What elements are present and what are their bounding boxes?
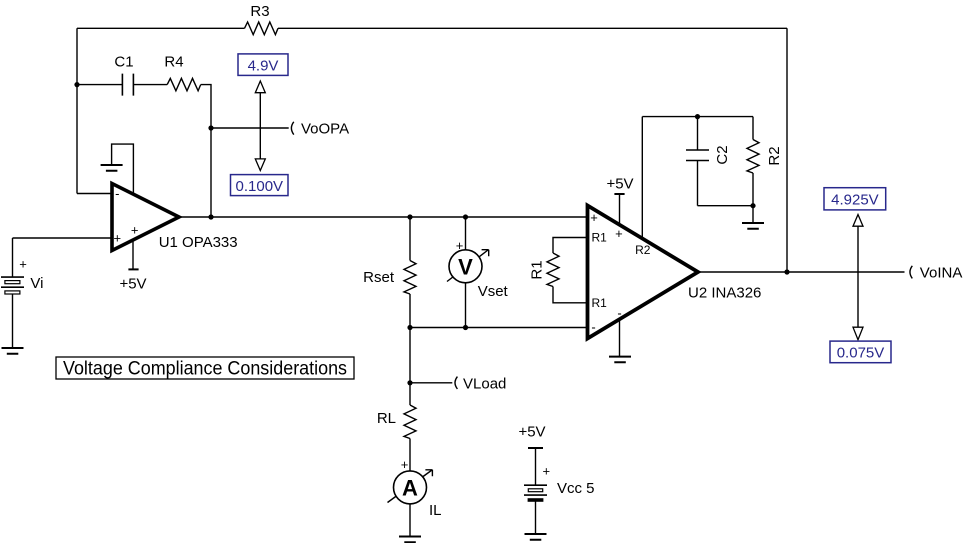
wire C1 branch: [77, 84, 122, 86]
svg-text:U2 INA326: U2 INA326: [688, 285, 761, 302]
wire Vi negative lead: [12, 294, 14, 348]
wire U1 noninverting input: [13, 237, 113, 239]
node dot Vset top: [463, 214, 468, 219]
svg-text:0.075V: 0.075V: [837, 345, 885, 362]
svg-text:-: -: [591, 320, 595, 335]
svg-text:C1: C1: [114, 54, 133, 71]
wire feedback right vertical: [786, 28, 788, 272]
svg-text:+5V: +5V: [119, 276, 146, 293]
svg-text:VoOPA: VoOPA: [301, 121, 349, 138]
svg-text:V: V: [458, 255, 473, 280]
svg-text:+: +: [131, 223, 139, 238]
node dot U1 output: [208, 214, 213, 219]
wire Vcc bottom: [535, 501, 537, 534]
wire Rset top lead: [409, 217, 411, 261]
wire U1 inverting input: [77, 193, 112, 195]
svg-text:C2: C2: [714, 145, 731, 164]
voltage box 4.925V: [824, 188, 886, 210]
node dot Rset bottom: [407, 325, 412, 330]
wire IL to ground: [409, 504, 411, 537]
svg-text:+: +: [401, 457, 409, 472]
svg-text:U1 OPA333: U1 OPA333: [159, 234, 238, 251]
wire R2 C2 top: [642, 116, 753, 118]
wire RL to ammeter: [409, 439, 411, 472]
wire R3 right lead: [278, 27, 787, 29]
node dot C1 branch: [74, 82, 79, 87]
instrumentation amp U2: [588, 206, 699, 339]
svg-text:IL: IL: [429, 502, 442, 519]
svg-text:VLoad: VLoad: [463, 375, 506, 392]
svg-text:R2: R2: [635, 243, 651, 257]
node dot Vset bottom: [463, 325, 468, 330]
wire U2 R1 bracket top: [553, 238, 588, 254]
connector VoINA arc: [910, 266, 912, 279]
svg-text:R2: R2: [766, 146, 783, 165]
measure arrow down VoINA: [853, 327, 863, 340]
svg-text:A: A: [402, 476, 418, 501]
svg-text:R1: R1: [529, 260, 546, 279]
node dot R2 bottom: [750, 203, 755, 208]
measure shaft VoOPA: [259, 93, 261, 159]
connector VoOPA arc: [291, 122, 293, 135]
wire U1 supply: [132, 240, 134, 269]
svg-text:+: +: [590, 210, 598, 225]
svg-text:Rset: Rset: [363, 269, 395, 286]
wire Vcc top: [535, 448, 537, 485]
svg-text:VoINA: VoINA: [920, 265, 963, 282]
capacitor C1: [122, 74, 133, 96]
svg-text:Vi: Vi: [30, 275, 43, 292]
node dot C2 top: [695, 114, 700, 119]
svg-text:+: +: [19, 256, 27, 271]
ground Vcc: [525, 534, 547, 540]
svg-text:Voltage Compliance Considerati: Voltage Compliance Considerations: [63, 359, 347, 380]
wire Rset bottom lead: [409, 294, 411, 328]
op-amp U1: [112, 184, 179, 251]
connector VLoad arc: [455, 377, 457, 389]
battery Vi: [1, 277, 24, 287]
svg-text:0.100V: 0.100V: [236, 178, 284, 195]
battery Vcc 5: [524, 485, 547, 495]
voltage box 0.100V: [231, 175, 289, 196]
wire R2 top lead: [752, 117, 754, 140]
node dot VLoad: [407, 380, 412, 385]
svg-text:4.9V: 4.9V: [248, 58, 279, 75]
svg-text:+5V: +5V: [518, 424, 545, 441]
wire C1 to R4: [133, 84, 167, 86]
svg-text:R4: R4: [164, 54, 183, 71]
wire U1 output: [179, 216, 588, 218]
svg-text:R1: R1: [592, 296, 608, 310]
ground IL: [399, 537, 421, 543]
svg-text:4.925V: 4.925V: [831, 191, 879, 208]
node dot VoINA junction: [784, 269, 789, 274]
wire lower to U2 inverting: [410, 327, 588, 329]
wire U2 R1 bracket bottom: [553, 287, 588, 303]
ground U1: [101, 165, 123, 171]
wire C2 top lead: [697, 117, 699, 150]
power +5V U1 bar: [128, 268, 138, 270]
node dot Rset top: [407, 214, 412, 219]
svg-text:+: +: [543, 464, 551, 479]
resistor R1: [547, 253, 559, 287]
svg-text:+: +: [615, 226, 623, 241]
power +5V U2 bar: [614, 193, 624, 195]
resistor R4: [167, 78, 201, 90]
wire ground stub R2: [752, 206, 754, 223]
wire U2 supply top: [619, 194, 621, 225]
voltmeter Vset: [447, 250, 489, 283]
measure arrow up VoOPA: [255, 81, 265, 93]
ground R2 C2: [742, 223, 764, 229]
wire U1 ground path: [112, 144, 134, 194]
wire Vi positive lead: [12, 238, 14, 277]
svg-text:RL: RL: [377, 410, 396, 427]
resistor RL: [404, 405, 416, 439]
svg-text:Vset: Vset: [478, 283, 509, 300]
wire U2 output: [698, 271, 905, 273]
wire U2 supply bottom: [619, 319, 621, 356]
wire C2 bottom lead: [697, 161, 699, 206]
resistor R3: [245, 22, 279, 35]
svg-text:-: -: [617, 306, 621, 321]
capacitor C2: [686, 150, 709, 161]
wire U2 R2 pin: [641, 117, 643, 239]
svg-text:+: +: [456, 238, 464, 253]
svg-text:-: -: [115, 186, 119, 201]
wire Vset branch: [465, 217, 467, 328]
wire VLoad vertical: [409, 328, 411, 383]
wire R3 left lead: [77, 27, 245, 29]
ground U2: [609, 357, 631, 363]
svg-text:+5V: +5V: [606, 176, 633, 193]
ammeter IL: [388, 470, 433, 504]
voltage box 0.075V: [830, 341, 891, 363]
wire C2 R2 bottom: [698, 205, 754, 207]
node dot VoOPA tee: [208, 125, 213, 130]
measure arrow up VoINA: [853, 215, 863, 227]
wire VLoad stub: [410, 382, 452, 384]
wire R2 bottom lead: [752, 173, 754, 206]
wire VoOPA stub: [211, 127, 289, 129]
title box: [56, 357, 354, 380]
measure arrow down VoOPA: [255, 159, 265, 171]
svg-text:R3: R3: [250, 3, 269, 20]
resistor R2: [747, 140, 759, 174]
wire R4 to output branch: [201, 85, 211, 217]
ground Vi: [2, 348, 24, 354]
wire feedback left vertical: [76, 28, 78, 193]
svg-text:Vcc 5: Vcc 5: [557, 480, 595, 497]
voltage box 4.9V: [238, 54, 288, 76]
resistor Rset: [404, 261, 416, 295]
svg-text:+: +: [114, 230, 122, 245]
measure shaft VoINA: [857, 226, 859, 327]
wire RL top lead: [409, 383, 411, 405]
power +5V Vcc bar: [528, 447, 543, 449]
svg-text:R1: R1: [592, 230, 608, 244]
